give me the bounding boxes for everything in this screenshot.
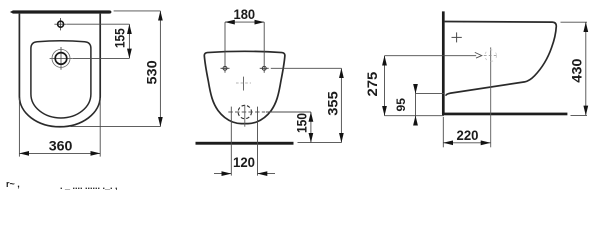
dim 360 line [19, 152, 100, 154]
ext lines 120 [230, 107, 232, 176]
outer bowl outline [19, 14, 100, 127]
dim 180 line [225, 21, 264, 23]
svg-text:355: 355 [326, 91, 341, 116]
fixing hole dashed cross + ext line 220 [484, 47, 498, 147]
svg-text:120: 120 [233, 155, 255, 170]
svg-text:220: 220 [457, 128, 479, 143]
svg-text:155: 155 [112, 28, 127, 48]
dim 150 line [310, 112, 312, 143]
dim 95 line with outside arrows [415, 94, 417, 116]
svg-text:150: 150 [295, 113, 310, 133]
wall line [442, 11, 445, 114]
wall bar [10, 10, 112, 13]
tap hole T1 [54, 18, 66, 30]
leader right hole to 355 dim [271, 67, 342, 69]
side profile [445, 22, 557, 96]
leader 275 with open arrow [385, 55, 477, 57]
ext line top 530 [114, 10, 161, 12]
dim 430 line [585, 22, 587, 115]
ext 430 top [561, 21, 588, 23]
left mount hole cross [221, 66, 230, 70]
svg-text:275: 275 [365, 71, 380, 96]
floor bar side [442, 113, 567, 116]
svg-text:180: 180 [234, 7, 256, 22]
ext 430 bottom [571, 114, 588, 116]
leader drain to 155 dim [73, 57, 130, 59]
dim 155 line [128, 24, 130, 58]
svg-text:530: 530 [145, 60, 160, 84]
front outline [204, 51, 285, 123]
tap cross side [452, 32, 462, 42]
leader bottom to 530 dim [71, 126, 161, 128]
floor ext line to dims [298, 142, 342, 144]
leader tap to 155 dim [67, 23, 129, 25]
floor bar middle [196, 142, 294, 145]
overflow mark dashed cross [236, 77, 251, 91]
drain hole D1 [50, 47, 73, 70]
dim 275 line [384, 56, 386, 116]
right mount hole cross [260, 66, 269, 70]
dim 220 line [443, 142, 490, 144]
dim 120 outside arrows [214, 173, 231, 175]
wall ext below floor [442, 117, 444, 147]
bottom leader to wall [385, 115, 445, 117]
svg-text:95: 95 [394, 98, 408, 112]
svg-text:360: 360 [49, 138, 73, 153]
dim 355 line [340, 68, 342, 142]
leader drain to 150 dim [266, 111, 311, 113]
svg-text:430: 430 [569, 58, 584, 82]
95 top leader [416, 93, 445, 95]
ext lines 360 [18, 98, 20, 157]
dim 530 line [159, 11, 161, 127]
svg-text:r~ ,: r~ , [6, 179, 20, 189]
svg-text:. _ .... ...... ._. ,: . _ .... ...... ._. , [60, 181, 118, 190]
inner rim outline [31, 41, 91, 118]
drain dashed circle [228, 105, 265, 127]
ext lines 180 (down to holes) [224, 22, 226, 73]
